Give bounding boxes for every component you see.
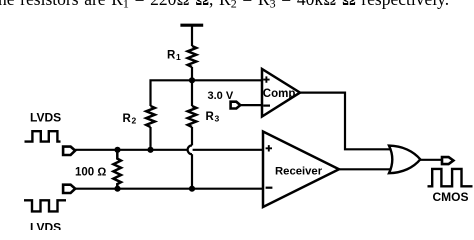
op-amp U1 Comp triangle [262,69,300,117]
wire: bottom input to Receiver - input [75,188,263,190]
wire: VCC bar to R1 [191,25,193,46]
clipped caption text [0,0,449,10]
svg-text:CMOS: CMOS [433,190,469,204]
svg-text:he resistors are R1 = 220Ω Ω,: he resistors are R1 = 220Ω Ω, R2 = R3 = … [0,0,449,10]
junction dot 100ohm bottom [114,186,120,192]
Comp + sign [263,76,269,82]
wire: R3 top lead [191,80,193,106]
wire: node A horizontal to Comp + input [151,80,263,106]
junction dot 100ohm top [114,147,120,153]
pin connector 3.0V source [231,102,241,109]
input pin bottom LVDS [63,185,75,193]
input pin top LVDS [63,147,75,155]
crossover hop (no connection) over top LVDS wire [187,145,196,154]
wire: R2 bottom lead [149,127,151,150]
junction dot R3 on bottom LVDS wire [189,186,195,192]
wire: 3.0V pin to Comp - input [240,104,262,106]
Receiver + sign [266,145,272,151]
wire: R3 lead to bottom LVDS wire [191,154,193,189]
junction dot R2 on top LVDS wire [147,147,153,153]
svg-text:R: R [167,50,176,62]
svg-text:3: 3 [215,114,220,124]
resistor 100 ohm [113,150,121,189]
svg-text:2: 2 [132,116,137,126]
LVDS top waveform [25,131,61,141]
Comp - sign [263,104,270,106]
power rail VCC bar [180,24,203,27]
svg-text:1: 1 [176,52,181,62]
LVDS bottom waveform [24,200,66,211]
resistor R2 [146,106,155,127]
wire: Receiver output to OR gate bottom input [339,168,392,170]
OR gate [389,146,420,174]
wire: OR gate output [420,159,442,161]
Receiver - sign [266,187,273,189]
wire: R1 to node A [191,67,193,80]
svg-text:LVDS: LVDS [30,221,61,231]
label R2 [123,113,137,126]
op-amp U2 Receiver triangle [263,132,339,208]
CMOS waveform [428,169,473,186]
wire: top input to Receiver + input (left span up to crossover) [75,149,188,151]
svg-text:100 Ω: 100 Ω [75,167,106,179]
label R1 [167,50,181,63]
svg-text:LVDS: LVDS [30,111,61,125]
wire: top input right span after crossover [193,149,263,151]
node A junction dot [189,77,195,83]
svg-text:Receiver: Receiver [275,166,323,178]
label R3 [206,111,220,124]
svg-text:Comp: Comp [263,88,296,100]
wire: R3 lead down to crossover [191,127,193,145]
resistor R3 [188,106,197,127]
svg-text:R: R [206,111,215,123]
output pin CMOS [442,157,453,164]
svg-text:R: R [123,113,132,125]
wire: Comp output to OR gate top input [300,93,392,150]
resistor R1 [188,46,197,67]
